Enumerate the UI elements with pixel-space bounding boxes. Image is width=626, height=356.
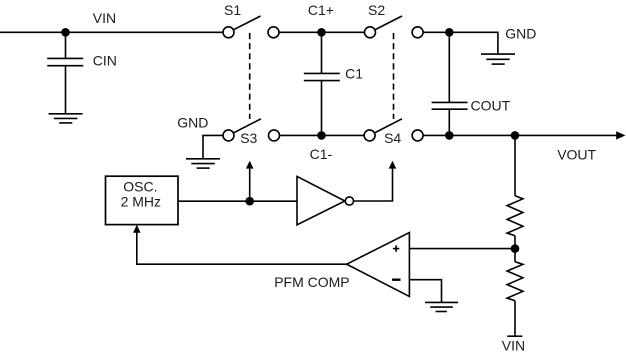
- svg-text:VOUT: VOUT: [557, 147, 596, 163]
- svg-text:OSC.: OSC.: [123, 179, 157, 195]
- svg-text:COUT: COUT: [471, 98, 511, 114]
- svg-text:C1+: C1+: [308, 2, 334, 18]
- svg-text:S2: S2: [368, 2, 385, 18]
- svg-text:C1: C1: [345, 66, 363, 82]
- svg-text:S4: S4: [384, 130, 401, 146]
- svg-text:PFM COMP: PFM COMP: [274, 274, 349, 290]
- svg-text:GND: GND: [177, 115, 208, 131]
- svg-text:GND: GND: [505, 26, 536, 42]
- svg-text:C1-: C1-: [310, 146, 333, 162]
- svg-text:S3: S3: [240, 130, 257, 146]
- svg-text:2 MHz: 2 MHz: [121, 194, 161, 210]
- svg-text:VIN: VIN: [93, 10, 116, 26]
- svg-text:S1: S1: [224, 2, 241, 18]
- svg-text:CIN: CIN: [93, 53, 117, 69]
- svg-text:VIN: VIN: [502, 338, 525, 354]
